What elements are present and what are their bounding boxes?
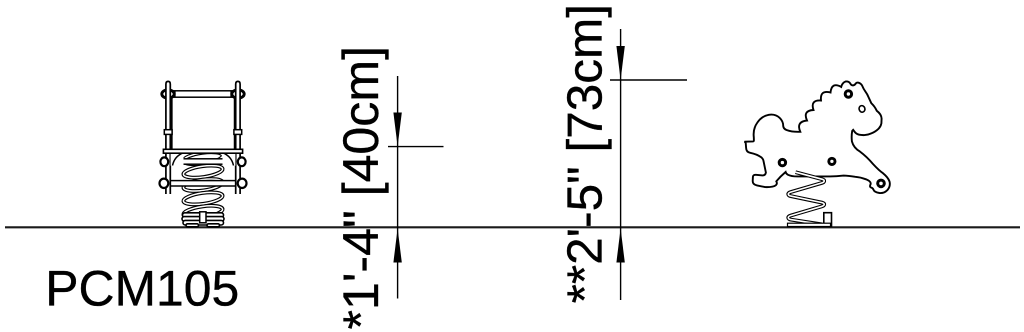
extension line seat	[388, 146, 444, 148]
bolt body left	[779, 159, 785, 165]
gusset left	[171, 153, 184, 166]
bolt clamp left	[164, 130, 172, 135]
svg-text:*1'-4" [40cm]: *1'-4" [40cm]	[333, 46, 389, 330]
horse body outline	[745, 81, 890, 193]
horse base right block	[824, 213, 832, 226]
handlebar knob left	[162, 90, 174, 98]
dimension 2 vertical line	[620, 29, 622, 300]
upper footrest cap right	[238, 157, 246, 166]
handlebar ferrule right	[230, 91, 232, 97]
horse spring rider side view	[745, 81, 890, 226]
spring clamp block	[200, 212, 206, 223]
body panel side right	[234, 97, 236, 149]
extension line horse top	[610, 79, 687, 81]
dimension 1 vertical line	[397, 76, 399, 299]
base coil stack	[182, 213, 224, 227]
horse eye	[858, 105, 866, 113]
upper footrest bar	[165, 159, 242, 164]
ground	[5, 226, 1020, 228]
svg-text:**2'-5" [73cm]: **2'-5" [73cm]	[557, 4, 612, 303]
body panel side left	[171, 97, 173, 149]
dimension 1 arrow up	[393, 228, 401, 262]
horse base plate	[788, 223, 831, 226]
dimension 2 arrow up	[616, 228, 624, 262]
upper footrest cap left	[160, 157, 168, 166]
post left	[166, 81, 170, 194]
lower footrest cap left	[160, 179, 169, 188]
post right	[236, 81, 240, 194]
bolt head	[845, 91, 851, 97]
dimension 1 arrow down	[393, 113, 401, 147]
main spring coil	[183, 150, 224, 220]
seat base bar	[163, 149, 242, 153]
horse spring	[788, 172, 824, 224]
bolt body right	[829, 158, 835, 164]
svg-text:PCM105: PCM105	[45, 260, 239, 316]
lower footrest bar	[164, 181, 242, 186]
spring rider front view	[160, 81, 247, 226]
handlebar tube	[170, 91, 236, 97]
gusset right	[223, 153, 236, 166]
bolt clamp right	[234, 130, 242, 135]
lower footrest cap right	[238, 179, 247, 188]
handlebar ferrule left	[174, 91, 176, 97]
bolt hoof	[878, 180, 885, 187]
dimension 2 arrow down	[616, 46, 624, 80]
handlebar knob right	[232, 90, 244, 98]
